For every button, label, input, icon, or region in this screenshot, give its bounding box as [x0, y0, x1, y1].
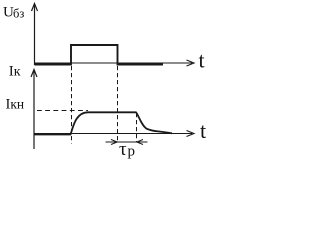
collector current waveform Ik	[34, 112, 172, 134]
bottom plot vertical axis	[31, 70, 37, 150]
dashed vertical line at fall start	[136, 113, 138, 142]
svg-text:t: t	[200, 118, 206, 143]
label Ubz (Uбз)	[3, 5, 24, 21]
dimension line tau-p with arrows	[106, 140, 148, 145]
input pulse waveform Ubz	[35, 45, 164, 65]
svg-text:Iкн: Iкн	[6, 96, 25, 112]
dashed level line Ikn	[37, 110, 88, 112]
top plot vertical axis	[32, 4, 38, 66]
svg-text:τ: τ	[119, 139, 127, 160]
top plot horizontal axis (t)	[35, 60, 195, 66]
svg-text:Iк: Iк	[9, 63, 21, 79]
dashed vertical line at pulse start	[71, 66, 73, 144]
dashed vertical line at pulse end	[117, 66, 119, 142]
svg-text:р: р	[128, 144, 136, 160]
svg-text:t: t	[199, 47, 205, 72]
bottom plot horizontal axis (t)	[34, 131, 194, 137]
label tau-p (τр)	[119, 139, 135, 160]
svg-text:бз: бз	[13, 6, 24, 20]
